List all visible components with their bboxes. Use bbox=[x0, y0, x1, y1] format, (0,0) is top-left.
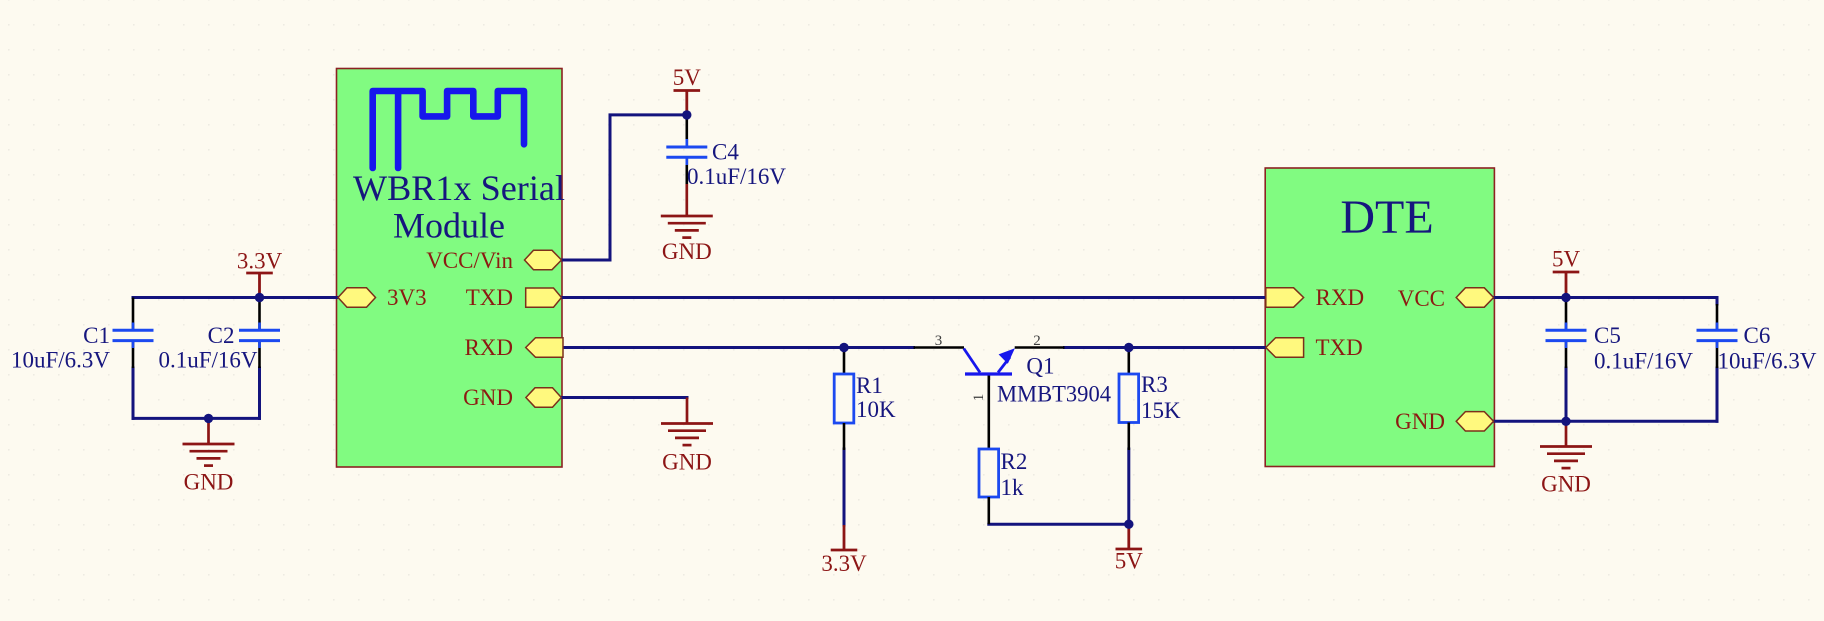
wire R3 bottom bbox=[1127, 449, 1130, 524]
svg-text:5V: 5V bbox=[1552, 247, 1581, 272]
node R2/R3/5V junction bbox=[1124, 520, 1133, 529]
capacitor C2 bbox=[158, 298, 280, 373]
power 5V above C4 bbox=[674, 91, 701, 115]
svg-text:Module: Module bbox=[393, 206, 505, 246]
power 5V bottom (R2/R3) bbox=[1116, 524, 1143, 549]
svg-text:RXD: RXD bbox=[464, 335, 513, 360]
pin GND DTE (hexagon) bbox=[1456, 412, 1493, 431]
svg-text:C1: C1 bbox=[83, 323, 110, 348]
svg-text:3.3V: 3.3V bbox=[237, 249, 283, 274]
transistor Q1 MMBT3904 bbox=[914, 333, 1112, 407]
capacitor C4 bbox=[666, 115, 786, 189]
node 5V/C4 junction bbox=[682, 110, 691, 119]
svg-text:VCC/Vin: VCC/Vin bbox=[426, 248, 513, 273]
node 3.3V/C2 junction bbox=[255, 293, 264, 302]
collector diagonal bbox=[964, 349, 980, 373]
svg-text:C2: C2 bbox=[208, 323, 235, 348]
pin 1 (base wire stub) bbox=[987, 374, 990, 380]
power 3.3V top bbox=[246, 273, 273, 298]
svg-text:5V: 5V bbox=[1115, 549, 1144, 574]
svg-text:C5: C5 bbox=[1594, 323, 1621, 348]
module U1 WBR1x Serial Module bbox=[337, 69, 563, 468]
svg-text:2: 2 bbox=[1033, 333, 1041, 349]
ground under C4 bbox=[661, 184, 713, 238]
svg-text:R3: R3 bbox=[1141, 372, 1168, 397]
svg-text:TXD: TXD bbox=[466, 285, 513, 310]
pin TXD DTE (left-pointing arrow) bbox=[1266, 338, 1304, 358]
wire R1 bottom to 3.3V bbox=[843, 449, 846, 525]
svg-text:0.1uF/16V: 0.1uF/16V bbox=[1594, 349, 1693, 374]
pin GND module (hexagon) bbox=[526, 388, 561, 407]
svg-text:C6: C6 bbox=[1744, 323, 1771, 348]
resistor R1 bbox=[834, 348, 896, 451]
emitter arrowhead bbox=[999, 348, 1015, 364]
pin 3 (collector wire stub) bbox=[914, 346, 965, 349]
module U2 DTE bbox=[1265, 168, 1494, 467]
svg-text:10uF/6.3V: 10uF/6.3V bbox=[11, 348, 110, 373]
base bar bbox=[965, 372, 1012, 375]
emitter diagonal bbox=[998, 357, 1010, 373]
svg-text:1k: 1k bbox=[1001, 475, 1025, 500]
wire gnd rail C1-C2 bbox=[133, 417, 260, 420]
wire R2 bottom rail to 5V node bbox=[989, 523, 1129, 526]
wire module TXD to DTE RXD bbox=[562, 296, 1265, 299]
svg-text:MMBT3904: MMBT3904 bbox=[997, 382, 1111, 407]
svg-text:RXD: RXD bbox=[1316, 285, 1365, 310]
wire DTE GND rail bbox=[1494, 420, 1717, 423]
ground under module GND pin bbox=[661, 398, 713, 446]
svg-text:WBR1x Serial: WBR1x Serial bbox=[353, 168, 565, 208]
svg-text:R2: R2 bbox=[1001, 449, 1028, 474]
svg-text:0.1uF/16V: 0.1uF/16V bbox=[687, 164, 786, 189]
svg-text:GND: GND bbox=[184, 470, 234, 495]
node R1/base junction bbox=[839, 343, 848, 352]
svg-text:1: 1 bbox=[971, 394, 987, 402]
svg-text:DTE: DTE bbox=[1340, 191, 1433, 244]
svg-text:10uF/6.3V: 10uF/6.3V bbox=[1718, 349, 1817, 374]
svg-text:3: 3 bbox=[935, 333, 943, 349]
node R3/emitter junction bbox=[1124, 343, 1133, 352]
svg-text:10K: 10K bbox=[856, 397, 896, 422]
wire Q1 emitter node to DTE TXD bbox=[1065, 346, 1266, 349]
pin 3V3 (module left, hexagon) bbox=[338, 288, 376, 307]
power 3.3V bottom (R1) bbox=[831, 525, 858, 550]
power 5V above C5 bbox=[1553, 272, 1580, 298]
pin name labels bbox=[387, 248, 1445, 434]
capacitor C1 bbox=[11, 298, 154, 373]
svg-text:GND: GND bbox=[1541, 472, 1591, 497]
wire C5 bottom bbox=[1565, 368, 1568, 421]
svg-text:5V: 5V bbox=[673, 65, 702, 90]
wire module RXD to Q1 base pin bbox=[562, 346, 914, 349]
pin VCC/Vin (module right, hexagon) bbox=[525, 250, 562, 269]
pin RXD module (left-pointing arrow) bbox=[526, 338, 563, 358]
pin TXD module (right-pointing arrow) bbox=[526, 288, 562, 307]
pin 2 (emitter wire stub) bbox=[1015, 346, 1065, 349]
svg-text:3.3V: 3.3V bbox=[821, 551, 867, 576]
module U1 title text bbox=[353, 168, 565, 246]
svg-text:R1: R1 bbox=[856, 373, 883, 398]
node gnd junction left bbox=[204, 414, 213, 423]
svg-text:GND: GND bbox=[662, 450, 712, 475]
svg-text:VCC: VCC bbox=[1398, 286, 1445, 311]
resistor R3 bbox=[1119, 351, 1181, 450]
svg-text:GND: GND bbox=[662, 239, 712, 264]
wire C2 bottom bbox=[258, 368, 261, 418]
ground left (C1/C2) bbox=[183, 418, 235, 465]
capacitor C5 bbox=[1546, 298, 1694, 374]
svg-text:TXD: TXD bbox=[1316, 335, 1363, 360]
wire C1 bottom bbox=[132, 368, 135, 418]
svg-text:GND: GND bbox=[1395, 409, 1445, 434]
wire 3.3V rail to module 3V3 bbox=[133, 296, 338, 299]
ground right (C5/C6) bbox=[1540, 421, 1592, 468]
svg-text:Q1: Q1 bbox=[1026, 354, 1054, 379]
wire VCC/Vin to 5V node bbox=[562, 115, 687, 260]
svg-text:15K: 15K bbox=[1141, 398, 1181, 423]
wire DTE VCC to C5 C6 bbox=[1494, 298, 1717, 305]
svg-text:C4: C4 bbox=[712, 140, 739, 165]
pin VCC DTE (hexagon) bbox=[1456, 288, 1493, 307]
pin RXD DTE (right-pointing arrow) bbox=[1266, 288, 1304, 307]
PINS bbox=[338, 250, 1494, 431]
svg-text:0.1uF/16V: 0.1uF/16V bbox=[158, 348, 257, 373]
svg-text:3V3: 3V3 bbox=[387, 285, 427, 310]
node GND/C5 junction right bbox=[1561, 417, 1570, 426]
capacitor C6 bbox=[1697, 304, 1817, 374]
wire module GND to gnd symbol bbox=[562, 396, 687, 399]
node 5V/C5 junction right bbox=[1561, 293, 1570, 302]
resistor R2 bbox=[979, 374, 1027, 524]
svg-text:GND: GND bbox=[463, 385, 513, 410]
antenna waveform logo on module U1 bbox=[373, 91, 524, 168]
wire C6 bottom bbox=[1716, 368, 1719, 421]
